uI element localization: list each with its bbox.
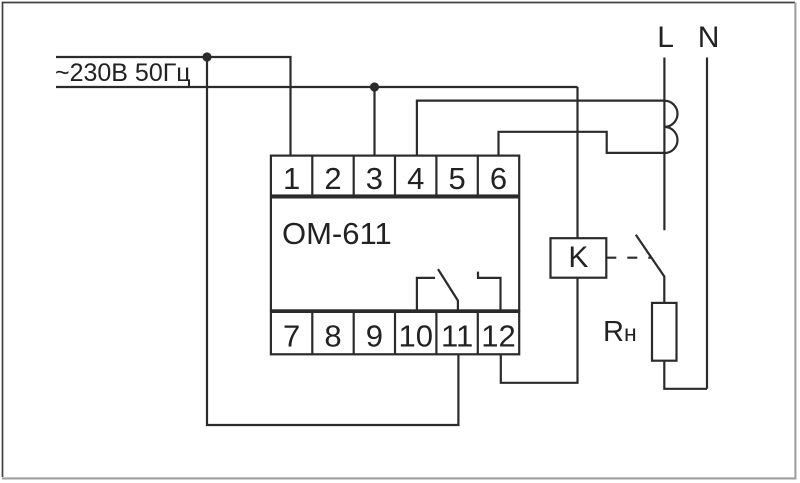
svg-text:N: N bbox=[698, 21, 720, 54]
wire L line bbox=[663, 58, 665, 231]
resistor Rн (load) bbox=[652, 303, 677, 361]
wire supply line 2 bbox=[56, 86, 578, 88]
junction dot on line 1 bbox=[202, 52, 211, 61]
wire from junction down and to terminal 11 bbox=[207, 57, 458, 425]
relay contact terminal 12 fixed contact bbox=[478, 272, 501, 312]
relay contact inside device: terminal 10 fixed contact bbox=[417, 278, 435, 312]
svg-text:Rн: Rн bbox=[603, 316, 637, 348]
svg-text:9: 9 bbox=[366, 318, 383, 353]
wire terminal 6 to transformer coil bottom bbox=[499, 132, 665, 156]
contactor K contact blade on L line bbox=[636, 235, 665, 303]
svg-text:4: 4 bbox=[407, 161, 424, 196]
svg-text:3: 3 bbox=[366, 161, 383, 196]
svg-text:1: 1 bbox=[283, 161, 300, 196]
wire terminal 4 to transformer coil top bbox=[417, 101, 665, 156]
device OM-611 top terminal row bbox=[271, 156, 519, 196]
mechanical link dashed line bbox=[606, 257, 651, 259]
junction dot on line 2 bbox=[370, 82, 379, 91]
device OM-611 body bbox=[271, 197, 519, 310]
svg-text:5: 5 bbox=[448, 161, 465, 196]
wire resistor bottom to N bbox=[664, 361, 707, 389]
wire N line bbox=[706, 58, 708, 389]
svg-text:6: 6 bbox=[490, 161, 507, 196]
svg-text:K: K bbox=[568, 241, 588, 274]
svg-text:2: 2 bbox=[324, 161, 341, 196]
current transformer coil on L wire bbox=[664, 101, 677, 153]
svg-text:11: 11 bbox=[441, 318, 473, 353]
svg-text:~230В 50Гц: ~230В 50Гц bbox=[55, 59, 191, 87]
svg-text:10: 10 bbox=[398, 318, 432, 353]
wire supply line 1 to terminal 1 bbox=[56, 57, 291, 156]
device OM-611 bottom terminal row bbox=[271, 312, 519, 354]
svg-text:ОМ-611: ОМ-611 bbox=[282, 216, 392, 251]
wire relay K bottom to terminal 12 bbox=[501, 278, 578, 383]
svg-text:L: L bbox=[657, 21, 674, 54]
wire line 2 to relay K coil top bbox=[576, 87, 578, 238]
svg-text:7: 7 bbox=[283, 318, 300, 353]
wire junction to terminal 3 bbox=[373, 87, 375, 156]
relay contact blade to terminal 11 bbox=[438, 269, 458, 312]
svg-text:12: 12 bbox=[481, 318, 515, 353]
relay K box bbox=[551, 238, 607, 278]
svg-text:8: 8 bbox=[324, 318, 341, 353]
